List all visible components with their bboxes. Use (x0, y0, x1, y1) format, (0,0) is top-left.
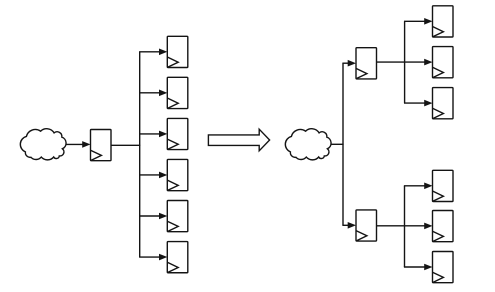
wire cloud to buffer B1 (66, 141, 91, 148)
flip-flop FF2 (167, 77, 188, 108)
flip-flop FF5 (167, 201, 188, 232)
flip-flop FF9 (433, 88, 454, 119)
cloud source left (20, 129, 66, 160)
wire branch to FF12 (404, 264, 433, 271)
flip-flop FF10 (433, 170, 454, 201)
flip-flop FF8 (433, 47, 454, 78)
flip-flop FF12 (433, 252, 454, 283)
buffer B3 (356, 210, 377, 241)
buffer B1 (91, 130, 112, 161)
wire branch to FF7 (404, 18, 433, 25)
flip-flop FF11 (433, 211, 454, 242)
wire branch to FF5 (139, 213, 167, 220)
buffer B2 (356, 48, 377, 79)
flip-flop FF1 (167, 36, 188, 67)
bus left vertical (139, 52, 141, 257)
bus bottom-right vertical (404, 186, 406, 267)
flip-flop FF3 (167, 118, 188, 149)
flip-flop FF6 (167, 242, 188, 273)
wire branch to FF2 (139, 90, 167, 97)
wire branch to FF6 (139, 254, 167, 261)
wire buffer B3 to FF11 through bus tap (376, 223, 432, 230)
bus top-right vertical (404, 21, 406, 103)
wire branch to FF4 (139, 172, 167, 179)
flip-flop FF4 (167, 159, 188, 190)
wire branch to FF3 (139, 131, 167, 138)
wire cloud to bus right (331, 143, 344, 145)
flip-flop FF7 (433, 6, 454, 37)
wire buffer B2 to FF8 through bus tap (376, 59, 432, 66)
bus right vertical (342, 63, 344, 225)
wire branch to buffer B2 (342, 60, 356, 67)
wire buffer B1 to bus (111, 144, 140, 146)
wire branch to FF1 (139, 49, 167, 56)
wire branch to FF9 (404, 100, 433, 107)
wire branch to FF10 (404, 183, 433, 190)
wire branch to buffer B3 (342, 222, 356, 229)
transform arrow (208, 129, 269, 151)
cloud source right (285, 129, 331, 160)
